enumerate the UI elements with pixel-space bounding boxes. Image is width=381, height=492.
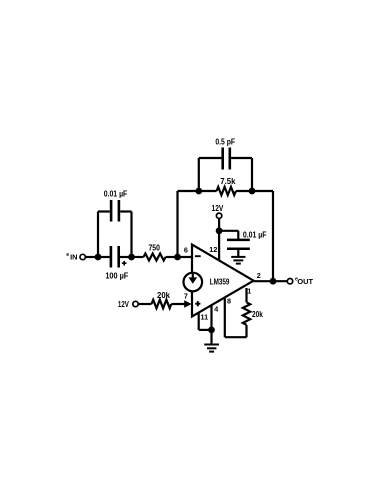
resistor R1 750 xyxy=(144,254,166,261)
svg-text:20k: 20k xyxy=(252,310,263,319)
wire node D to 7.5k xyxy=(199,190,217,192)
wire bypass loop top-right xyxy=(120,210,131,212)
wire pin 11 vertical xyxy=(198,312,200,330)
svg-text:OUT: OUT xyxy=(297,277,313,286)
node junction dot A (input node) xyxy=(95,254,102,261)
ground (op-amp) xyxy=(204,345,219,352)
wire 750 to node C xyxy=(166,256,178,258)
wire from 100uF right plate xyxy=(120,256,132,258)
label + polarity of 100uF xyxy=(122,261,127,266)
capacitor C1 0.01uF (input bypass) xyxy=(111,200,119,222)
node junction dot G (output node) xyxy=(270,278,277,285)
svg-text:20k: 20k xyxy=(157,291,170,300)
wire bypass loop top-left xyxy=(98,210,110,212)
wire input line segment 1 xyxy=(86,256,98,258)
wire node E to right vertical xyxy=(252,190,273,192)
wire 0.5pF loop left vertical xyxy=(198,158,200,191)
label minus input sign xyxy=(195,255,201,257)
node junction dot D xyxy=(195,188,202,195)
input terminal eIN xyxy=(80,254,85,259)
wire 20k to pin 7 arrow xyxy=(171,303,185,305)
ground (decoupling) xyxy=(231,257,245,264)
wire node H to ground xyxy=(210,330,212,344)
resistor R4 20k (pin1 to pin8) xyxy=(243,302,250,325)
svg-text:IN: IN xyxy=(70,253,77,262)
svg-text:2: 2 xyxy=(257,271,261,280)
wire feedback right vertical to output xyxy=(272,191,274,281)
svg-text:LM359: LM359 xyxy=(210,278,230,287)
svg-text:e: e xyxy=(66,252,69,258)
svg-text:e: e xyxy=(295,276,298,282)
wire pin 8 vertical xyxy=(224,297,226,337)
wire output pin 2 xyxy=(254,280,287,282)
svg-text:4: 4 xyxy=(214,304,218,313)
node junction dot E xyxy=(249,188,256,195)
wire supply node to 12V terminal xyxy=(218,219,220,231)
wire pin 4 vertical xyxy=(210,305,212,330)
svg-text:11: 11 xyxy=(200,313,208,322)
wire pin 11 to pin 4 node xyxy=(199,329,212,331)
arrow into pin 7 xyxy=(184,300,191,307)
svg-text:6: 6 xyxy=(184,245,188,254)
wire supply node to decoupling cap xyxy=(219,230,238,232)
svg-text:100 µF: 100 µF xyxy=(105,271,128,280)
wire bypass loop left vertical xyxy=(97,212,99,258)
wire 20k bottom xyxy=(245,325,247,337)
svg-text:8: 8 xyxy=(227,296,231,305)
svg-text:7: 7 xyxy=(184,292,188,301)
wire node C to pin 6 xyxy=(178,256,192,258)
wire feedback left vertical xyxy=(176,191,178,257)
wire down to decoupling cap xyxy=(237,231,239,240)
node junction dot H (pin4/11 node) xyxy=(208,327,215,334)
wire 7.5k to node E xyxy=(236,190,252,192)
wire to 100uF left plate xyxy=(98,256,110,258)
svg-text:12V: 12V xyxy=(212,204,224,213)
label plus input sign xyxy=(195,301,200,306)
wire pin 1 to 20k vertical xyxy=(245,288,247,302)
svg-text:7.5k: 7.5k xyxy=(220,177,236,186)
wire 0.5pF loop top-left xyxy=(199,157,222,159)
wire bypass loop right vertical xyxy=(130,212,132,258)
wire bottom horizontal to pin 8 xyxy=(225,336,247,338)
svg-text:0.01 µF: 0.01 µF xyxy=(104,190,128,199)
node junction dot C (inverting input node) xyxy=(174,254,181,261)
wire to 750 resistor xyxy=(132,256,144,258)
wire decoupling cap to ground xyxy=(237,249,239,257)
op-amp U1 LM359 triangle xyxy=(192,245,254,317)
capacitor C4 0.01uF (supply decoupling) xyxy=(227,240,250,249)
capacitor C2 100uF (polarized, series input) xyxy=(111,246,119,268)
svg-text:750: 750 xyxy=(149,244,161,253)
node junction dot B (after 100uF) xyxy=(128,254,135,261)
power terminal 12V (top) xyxy=(216,213,221,218)
svg-text:0.5 pF: 0.5 pF xyxy=(215,137,235,146)
node junction dot F (supply node) xyxy=(216,227,223,234)
wire feedback top to node D xyxy=(178,190,199,192)
resistor R2 7.5k (feedback) xyxy=(217,187,236,195)
output terminal eOUT xyxy=(287,279,292,284)
svg-text:0.01 µF: 0.01 µF xyxy=(243,230,267,239)
svg-text:1: 1 xyxy=(247,287,251,296)
wire 12V to 20k xyxy=(139,303,152,305)
wire pin 12 vertical xyxy=(218,231,220,261)
current source symbol inside LM359 xyxy=(184,273,203,292)
wire 0.5pF loop right vertical xyxy=(251,158,253,191)
wire 0.5pF loop top-right xyxy=(231,157,252,159)
svg-text:12V: 12V xyxy=(118,300,129,309)
svg-text:12: 12 xyxy=(209,245,217,254)
resistor R3 20k (bias) xyxy=(152,300,172,308)
capacitor C3 0.5pF (feedback) xyxy=(223,148,230,170)
power terminal 12V (left, bias) xyxy=(133,301,138,306)
